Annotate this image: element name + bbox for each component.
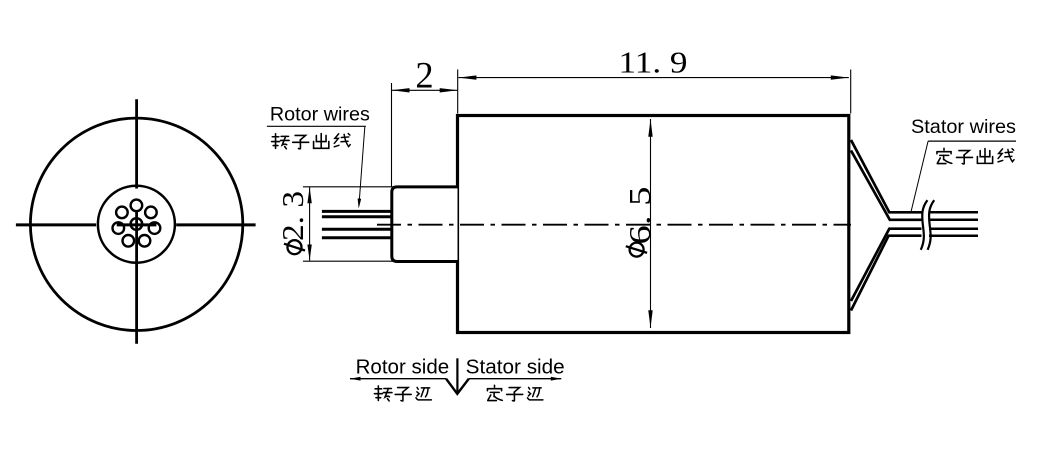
- dimension 11.9: right arrow: [831, 75, 849, 79]
- label Chinese rotor wires: [272, 133, 351, 148]
- outer circle (housing): [30, 118, 242, 330]
- label Stator wires underline: [928, 140, 1016, 142]
- dimension 2: left arrow: [392, 88, 410, 92]
- dimension phi2.3: bottom extension line: [303, 260, 394, 262]
- inner circle (wire bore): [98, 186, 175, 263]
- axis centerline (side view, dash-dot): [377, 224, 851, 226]
- dimension phi6.5: diameter symbol: [626, 243, 647, 257]
- stator bundle upper outer wire: [851, 140, 922, 212]
- dimension 11.9: dimension line: [458, 77, 848, 79]
- svg-text:2: 2: [415, 54, 433, 95]
- stator bundle upper inner wire: [851, 151, 922, 220]
- dimension phi2.3: value text rotated: [275, 191, 310, 241]
- dimension phi2.3: bottom arrow: [307, 245, 311, 261]
- split annotation left arrow: [350, 377, 361, 381]
- svg-text:Stator wires: Stator wires: [911, 116, 1016, 138]
- label Chinese stator side: [487, 385, 542, 401]
- cable break mark right curve: [928, 200, 935, 250]
- body outline: [458, 116, 849, 333]
- dimension 2: left extension line: [391, 83, 393, 187]
- split annotation vertical line: [456, 358, 458, 392]
- split annotation right line: [469, 378, 561, 380]
- svg-text:Rotor wires: Rotor wires: [270, 103, 370, 125]
- center wire circle: [131, 218, 143, 230]
- dimension 11.9: left arrow: [458, 75, 476, 79]
- label Rotor wires leader arrow: [358, 198, 362, 208]
- rotor end cap outline: [392, 187, 458, 262]
- dimension phi6.5: value text rotated: [622, 187, 657, 245]
- dimension phi6.5: dimension line: [650, 119, 652, 328]
- dimension 11.9: right extension line: [850, 70, 852, 114]
- horizontal centerline (front view): [16, 223, 256, 226]
- dimension phi2.3: dimension line: [309, 187, 311, 260]
- svg-text:6. 5: 6. 5: [622, 187, 657, 245]
- dimension phi2.3: diameter symbol: [284, 240, 305, 254]
- rotor wire 4: [322, 236, 391, 239]
- label Rotor wires leader: [359, 127, 365, 206]
- label Chinese rotor side: [374, 386, 431, 401]
- split annotation right arrow: [551, 377, 562, 381]
- dimension 2: right arrow: [440, 88, 458, 92]
- split annotation left line: [350, 378, 446, 380]
- rotor wire 2: [322, 215, 391, 218]
- dimension 2/11.9: shared extension line: [457, 70, 459, 114]
- stator wires right of break: [929, 212, 978, 235]
- rotor wire 1: [322, 210, 391, 213]
- split annotation V arrowhead: [446, 379, 469, 394]
- label Chinese stator wires: [937, 148, 1014, 164]
- rotor wire 3: [322, 228, 391, 231]
- svg-text:Stator side: Stator side: [466, 357, 565, 379]
- dimension 2: dimension line: [392, 89, 458, 91]
- dimension phi2.3: top arrow: [307, 187, 311, 203]
- svg-text:11. 9: 11. 9: [619, 44, 688, 79]
- cable break mark left curve: [921, 200, 928, 250]
- svg-text:Rotor side: Rotor side: [356, 357, 450, 379]
- dimension phi6.5: top arrow: [648, 119, 652, 137]
- stator bundle lower outer wire: [851, 236, 922, 311]
- svg-text:2. 3: 2. 3: [275, 191, 310, 241]
- dimension phi6.5: bottom arrow: [648, 310, 652, 328]
- vertical centerline (front view): [135, 99, 138, 343]
- stator bundle lower inner wire: [851, 229, 922, 301]
- label Rotor wires underline: [267, 125, 366, 127]
- ring of 7 wire circles: [113, 200, 161, 247]
- dimension phi2.3: top extension line: [303, 186, 394, 188]
- label Stator wires leader: [911, 141, 928, 211]
